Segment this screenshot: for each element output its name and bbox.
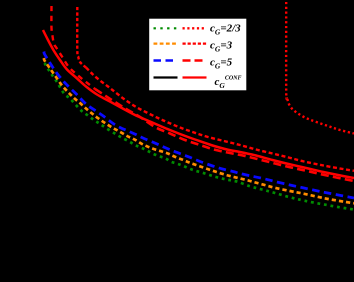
legend row3 blue dashed sample <box>154 59 178 61</box>
curve cG=2/3 green dotted <box>45 63 354 210</box>
legend box <box>149 18 248 91</box>
curve cG=3 red small-dash steep head <box>77 7 86 68</box>
svg-text:cG=5: cG=5 <box>210 57 233 71</box>
legend row1 red dotted sample <box>183 27 207 29</box>
curve cG=5 red big-dash steep head <box>51 6 95 89</box>
legend row4 black solid sample <box>154 76 178 78</box>
legend row2 orange dashed sample <box>154 42 178 44</box>
curve cG=2/3 red dotted <box>286 2 354 134</box>
curve cG=5 red big-dash tail <box>95 89 354 181</box>
legend row2 red dashed sample <box>183 42 207 44</box>
curve cG=5 blue dashed <box>44 52 354 199</box>
legend row4 red solid sample <box>183 76 207 78</box>
curve cG=3 red small-dash tail <box>86 68 354 171</box>
svg-text:cG=2/3: cG=2/3 <box>210 23 241 37</box>
legend row3 red big-dash sample <box>183 59 207 61</box>
svg-text:cG=3: cG=3 <box>210 40 233 54</box>
curve cG=3 orange dashed <box>44 58 354 203</box>
legend row1 green dotted sample <box>154 27 178 29</box>
curve cG CONF red solid <box>43 30 354 178</box>
